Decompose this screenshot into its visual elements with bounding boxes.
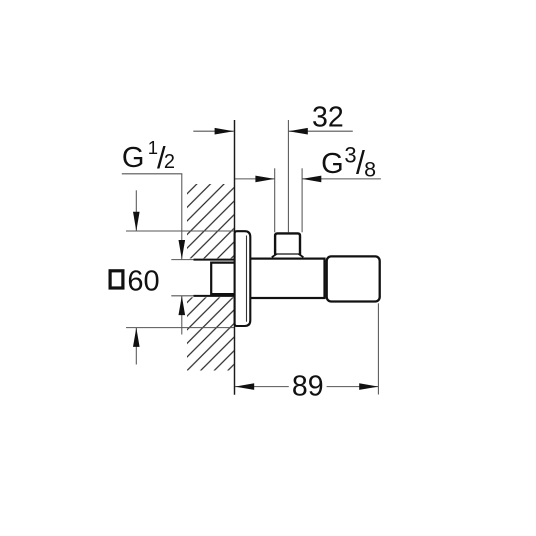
centerline of valve (vertical) (287, 120, 289, 232)
arrow 89 left (points left) (235, 383, 254, 390)
G3/8 extension line right (301, 168, 303, 232)
svg-text:32: 32 (312, 101, 344, 133)
arrow G3/8 right (points left) (302, 176, 321, 183)
arrow square-60 up (133, 328, 140, 347)
compression nut flare right (298, 254, 303, 257)
escutcheon face line (246, 236, 248, 322)
arrow 32 right (points left) (289, 128, 308, 135)
fitting extension line top (171, 259, 194, 261)
G1/2 dimension line upper (181, 174, 183, 259)
dimension 89 line right part (327, 386, 379, 388)
svg-text:2: 2 (164, 151, 175, 173)
svg-text:60: 60 (127, 265, 159, 297)
label square symbol (110, 271, 123, 288)
arrow G3/8 left (points right) (255, 176, 274, 183)
inlet square section in wall (211, 263, 234, 295)
svg-text:G: G (122, 142, 145, 174)
G1/2 leader horizontal (122, 173, 183, 175)
svg-text:8: 8 (364, 157, 376, 181)
inlet pipe top edge (thick) (194, 259, 235, 261)
svg-text:G: G (321, 148, 344, 180)
chrome end block (327, 256, 380, 301)
dimension 32 line left part (193, 130, 234, 132)
G3/8 extension line left (274, 168, 276, 232)
dimension 32 line right part (289, 130, 353, 132)
arrow G1/2 down (179, 240, 186, 259)
arrow square-60 down (133, 212, 140, 231)
svg-text:89: 89 (292, 371, 324, 403)
valve body tube (250, 259, 325, 298)
label 89 background gap (290, 375, 327, 399)
wall hatching (187, 184, 234, 371)
wall face line (234, 120, 236, 395)
fitting extension line bottom (171, 295, 194, 297)
G3/8 dimension line right part (302, 178, 381, 180)
svg-text:3: 3 (344, 143, 356, 168)
G3/8 dimension line left part (235, 178, 275, 180)
dimension 89 line left part (235, 386, 289, 388)
dimension 89 extension line right (377, 303, 379, 394)
G1/2 dimension line lower (181, 296, 183, 335)
arrow 89 right (points right) (359, 383, 378, 390)
square-60 dimension line lower (135, 328, 137, 365)
compression nut flare left (272, 254, 277, 257)
square-60 dimension line upper (135, 190, 137, 231)
arrow 32 left (points right) (215, 128, 234, 135)
compression nut G3/8 (275, 233, 300, 253)
escutcheon plate (235, 231, 251, 326)
wall cutout for inlet fitting (186, 258, 234, 297)
square-60 extension line bottom (126, 327, 235, 329)
square-60 extension line top (126, 230, 235, 232)
inlet pipe bottom edge (thick) (194, 295, 235, 297)
arrow G1/2 up (179, 296, 186, 315)
